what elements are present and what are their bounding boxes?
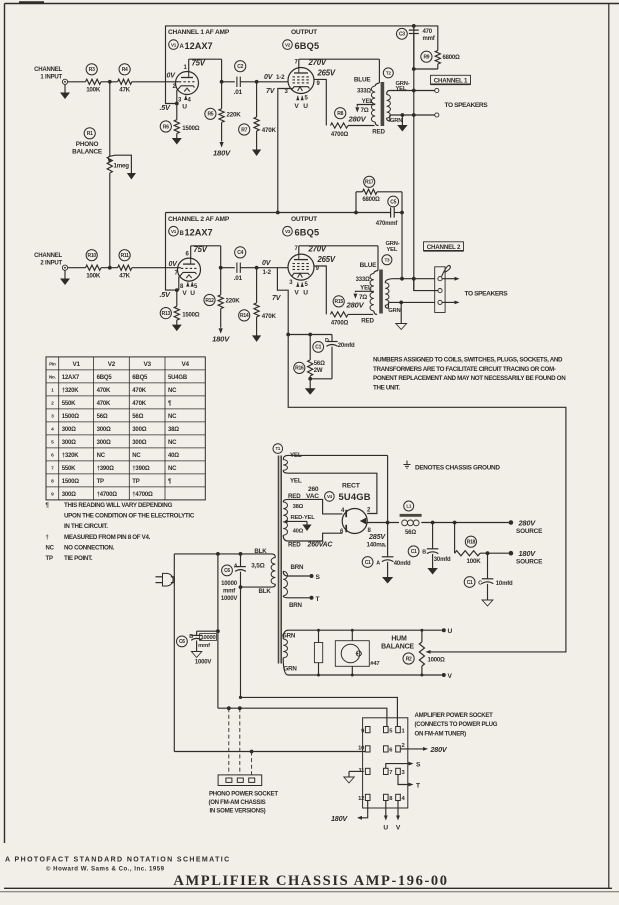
wire R5 to 180V bbox=[221, 122, 223, 141]
node junction AC/C6A top bbox=[239, 552, 243, 556]
wire V1a cathode lead down bbox=[177, 88, 179, 103]
svg-text:1-2: 1-2 bbox=[263, 269, 272, 276]
svg-text:40Ω: 40Ω bbox=[293, 528, 304, 534]
svg-text:†390Ω: †390Ω bbox=[132, 466, 150, 472]
resistor R17 6800 ohm feedback bbox=[364, 176, 375, 187]
terminal 180V SOURCE bbox=[509, 551, 514, 556]
transformer T1 power bbox=[273, 444, 283, 454]
wire pin 12 to 180V bbox=[361, 801, 368, 818]
svg-text:†: † bbox=[46, 535, 49, 541]
resistor R1 PHONO BALANCE 1meg potentiometer bbox=[84, 128, 95, 139]
svg-text:(CONNECTS TO POWER PLUG: (CONNECTS TO POWER PLUG bbox=[415, 721, 498, 728]
svg-text:56Ω: 56Ω bbox=[97, 414, 108, 420]
pin 7 bbox=[384, 768, 389, 774]
wire YEL bottom lead to V4 pin 2 bbox=[283, 470, 288, 473]
svg-text:6BQ5: 6BQ5 bbox=[295, 227, 320, 237]
ground below R13 bbox=[176, 320, 178, 326]
resistor R12 220K plate load bbox=[204, 294, 215, 305]
svg-text:V1: V1 bbox=[171, 42, 177, 47]
svg-text:56Ω: 56Ω bbox=[405, 530, 416, 536]
svg-text:R2: R2 bbox=[406, 656, 412, 662]
node junction C3/R9 bottom bbox=[412, 67, 416, 71]
node junction secondary bottom / ground bbox=[401, 113, 405, 117]
junction node at R3/R4 bbox=[108, 80, 112, 84]
svg-text:4700Ω: 4700Ω bbox=[331, 321, 349, 327]
svg-text:HUM: HUM bbox=[391, 635, 407, 642]
tube V1 label B12AX7 bbox=[169, 226, 179, 236]
amplifier power socket body bbox=[363, 718, 408, 808]
table tube voltage chart bbox=[46, 357, 205, 500]
svg-text:470K: 470K bbox=[132, 401, 146, 407]
svg-text:NC: NC bbox=[168, 466, 177, 472]
svg-text:10mfd: 10mfd bbox=[496, 581, 513, 587]
tube V1a 12AX7 triode section bbox=[176, 72, 199, 95]
ground at channel 2 input bbox=[64, 270, 66, 279]
svg-text:C6: C6 bbox=[224, 568, 230, 574]
wire GRN top lead / U line bbox=[283, 630, 288, 639]
resistor R9 6800 ohm bbox=[421, 51, 432, 62]
svg-text:†320K: †320K bbox=[62, 453, 80, 459]
wire T3 secondary top to switch bbox=[393, 278, 435, 280]
winding T1 primary BLK 3.5 ohm bbox=[271, 558, 275, 585]
wire T3 secondary bottom to switch bbox=[388, 301, 434, 303]
wire HV top lead to V4 plate pin 4 bbox=[283, 499, 288, 502]
wire pin 7 to S bbox=[386, 764, 410, 769]
svg-text:IN THE CIRCUIT.: IN THE CIRCUIT. bbox=[64, 523, 108, 530]
svg-text:BLUE: BLUE bbox=[354, 77, 372, 84]
wire T2 secondary bottom to speaker terminal bbox=[390, 114, 435, 116]
svg-text:333Ω: 333Ω bbox=[357, 89, 371, 95]
node CHANNEL 1 speaker label bbox=[431, 75, 471, 84]
svg-text:100K: 100K bbox=[467, 558, 482, 565]
svg-text:V4: V4 bbox=[327, 494, 333, 499]
node junction V3 cathode / bias network bbox=[286, 333, 290, 337]
pilot lamp #47 bbox=[335, 641, 369, 667]
wire C2 to V2 grid bbox=[240, 81, 288, 83]
svg-text:260VAC: 260VAC bbox=[307, 542, 334, 549]
pin 6 bbox=[384, 746, 389, 752]
svg-text:C3: C3 bbox=[399, 32, 405, 38]
wire pot to channel 2 line bbox=[109, 173, 111, 268]
svg-text:470K: 470K bbox=[132, 388, 146, 394]
svg-text:3,5Ω: 3,5Ω bbox=[251, 563, 264, 570]
svg-text:470K: 470K bbox=[262, 127, 277, 134]
svg-text:No.: No. bbox=[49, 375, 56, 380]
node CHANNEL 2 speaker label bbox=[424, 242, 464, 251]
svg-text:V1: V1 bbox=[72, 361, 80, 368]
wire T2 secondary top to speaker bus bbox=[389, 90, 435, 92]
svg-text:R18: R18 bbox=[467, 540, 476, 546]
node junction V2 cathode / section wire bbox=[276, 211, 280, 215]
svg-text:© Howard W. Sams & Co., Inc. 1: © Howard W. Sams & Co., Inc. 1959 bbox=[46, 866, 165, 873]
input jack J1 channel 1 bbox=[62, 79, 67, 84]
capacitor C2 .01 coupling bbox=[235, 61, 246, 72]
wire B+ 280V line bbox=[421, 522, 509, 524]
svg-text:10000: 10000 bbox=[200, 635, 215, 641]
tube V2 label 6BQ5 bbox=[283, 40, 293, 50]
wire R8 to T2 primary bottom bbox=[348, 125, 375, 127]
svg-text:12AX7: 12AX7 bbox=[185, 41, 213, 51]
svg-text:1500Ω: 1500Ω bbox=[182, 312, 200, 318]
wire V2 screen pin 9 to R8 bbox=[314, 79, 326, 125]
wire V2 plate to T2 primary bbox=[298, 59, 300, 67]
wire pin 3 to T bbox=[398, 775, 410, 785]
svg-text:R12: R12 bbox=[205, 298, 214, 304]
svg-text:BLUE: BLUE bbox=[360, 262, 378, 269]
svg-text:BALANCE: BALANCE bbox=[381, 643, 414, 650]
svg-text:R3: R3 bbox=[89, 67, 95, 73]
wire V3 cathode down to bias network bbox=[277, 268, 288, 335]
svg-text:NC: NC bbox=[168, 440, 177, 446]
svg-text:2 INPUT: 2 INPUT bbox=[40, 261, 62, 267]
svg-text:2: 2 bbox=[402, 743, 405, 749]
svg-text:550K: 550K bbox=[62, 401, 76, 407]
ground on T3 secondary hollow bbox=[400, 302, 402, 322]
svg-text:47K: 47K bbox=[119, 87, 130, 94]
svg-text:R6: R6 bbox=[163, 124, 169, 130]
svg-text:470: 470 bbox=[423, 29, 433, 35]
input jack J2 channel 2 bbox=[62, 265, 67, 270]
svg-text:300Ω: 300Ω bbox=[97, 440, 111, 446]
svg-text:280V: 280V bbox=[346, 301, 365, 310]
svg-text:PHONO: PHONO bbox=[76, 141, 99, 148]
resistor R18 100K bbox=[465, 536, 476, 547]
svg-text:300Ω: 300Ω bbox=[62, 427, 76, 433]
winding T1 HV secondary RED bbox=[283, 502, 287, 535]
svg-text:470K: 470K bbox=[262, 313, 277, 320]
svg-text:38Ω: 38Ω bbox=[293, 504, 304, 510]
svg-text:1 INPUT: 1 INPUT bbox=[40, 75, 62, 81]
svg-text:265V: 265V bbox=[317, 255, 336, 264]
tube V1b 12AX7 triode section bbox=[178, 258, 201, 281]
pin 5 bbox=[384, 727, 389, 733]
tube V2 6BQ5 output pentode bbox=[288, 68, 314, 94]
svg-text:V3: V3 bbox=[143, 361, 151, 368]
svg-text:CHANNEL 2 AF AMP: CHANNEL 2 AF AMP bbox=[168, 216, 230, 223]
svg-text:GRN: GRN bbox=[388, 308, 400, 314]
svg-text:THIS READING WILL VARY DEPENDI: THIS READING WILL VARY DEPENDING bbox=[64, 502, 173, 509]
svg-text:V1: V1 bbox=[171, 229, 177, 234]
wire speaker return bus vertical bbox=[413, 26, 415, 291]
svg-text:GRN: GRN bbox=[284, 666, 298, 673]
svg-text:12AX7: 12AX7 bbox=[62, 375, 80, 381]
svg-text:RED: RED bbox=[288, 542, 301, 549]
ground below R6 bbox=[176, 134, 178, 140]
wire AC wire 1 down to socket pin 5 bbox=[217, 554, 219, 708]
svg-text:NUMBERS ASSIGNED TO COILS, SWI: NUMBERS ASSIGNED TO COILS, SWITCHES, PLU… bbox=[373, 357, 563, 364]
resistor R5 220K plate load bbox=[205, 108, 216, 119]
wire V2 cathode to ch2 section wire bbox=[278, 89, 292, 213]
svg-text:DENOTES CHASSIS GROUND: DENOTES CHASSIS GROUND bbox=[415, 464, 500, 471]
resistor R4 47K bbox=[119, 64, 130, 75]
svg-text:ON FM-AM TUNER): ON FM-AM TUNER) bbox=[415, 730, 467, 737]
capacitor C1D 20mfd cathode bypass bbox=[313, 342, 324, 353]
winding T1 rectifier heater YEL bbox=[283, 460, 287, 471]
terminal speaker ch1 bottom bbox=[435, 113, 439, 117]
wire AC top line to T1 primary bbox=[174, 553, 271, 555]
svg-text:1000V: 1000V bbox=[195, 660, 212, 666]
svg-text:BRN: BRN bbox=[289, 602, 303, 609]
svg-text:180V: 180V bbox=[331, 814, 348, 823]
wire dashed phono feed 2 bbox=[238, 706, 242, 710]
svg-text:R9: R9 bbox=[424, 55, 430, 61]
svg-text:AMPLIFIER CHASSIS AMP-196-00: AMPLIFIER CHASSIS AMP-196-00 bbox=[173, 873, 448, 889]
svg-text:38Ω: 38Ω bbox=[168, 427, 179, 433]
svg-text:470K: 470K bbox=[97, 401, 111, 407]
resistor R14 470K grid return bbox=[239, 310, 250, 321]
wire V3 cathode to hum balance wiper (long route) bbox=[288, 335, 566, 652]
tube V1 label A12AX7 bbox=[169, 40, 179, 50]
node junction plate/R12/C4 bbox=[219, 266, 223, 270]
svg-text:V4: V4 bbox=[181, 361, 189, 368]
pin 10 bbox=[365, 746, 370, 752]
ground below C1B bbox=[432, 567, 434, 569]
svg-text:†4700Ω: †4700Ω bbox=[132, 492, 153, 498]
pin 3 bbox=[396, 768, 401, 774]
winding T1 BRN heater bbox=[283, 571, 287, 596]
svg-text:YEL: YEL bbox=[387, 247, 398, 253]
svg-text:T3: T3 bbox=[385, 257, 391, 262]
svg-text:V3: V3 bbox=[285, 229, 291, 234]
wire C5 junction down to T3 secondary bbox=[401, 213, 403, 279]
node junction C1B bbox=[431, 521, 435, 525]
ground below R14 bbox=[256, 317, 258, 337]
capacitor C1A 40mfd bbox=[362, 557, 373, 568]
svg-text:R5: R5 bbox=[208, 112, 214, 118]
wire GRN bottom lead / V line bbox=[283, 658, 288, 675]
svg-text:1500Ω: 1500Ω bbox=[62, 479, 80, 485]
node junction R17 right bbox=[400, 211, 404, 215]
svg-text:7: 7 bbox=[389, 770, 392, 776]
wire C6A line down to socket pin 1 bbox=[240, 587, 242, 697]
node junction YEL/B+ wire bbox=[386, 521, 390, 525]
svg-text:C1: C1 bbox=[467, 580, 473, 586]
node junction secondary bottom / ground bbox=[399, 301, 403, 305]
svg-text:D: D bbox=[325, 338, 329, 344]
terminal U heater bbox=[442, 628, 446, 632]
resistor R13 1500 ohm bbox=[160, 308, 171, 319]
wire bus to switch middle terminal bbox=[414, 279, 438, 291]
svg-text:OUTPUT: OUTPUT bbox=[291, 216, 317, 223]
svg-text:1-2: 1-2 bbox=[276, 74, 285, 81]
svg-text:C2: C2 bbox=[237, 64, 243, 70]
svg-text:.5V: .5V bbox=[160, 290, 172, 299]
wire V4 pin 8 output B+ bbox=[366, 522, 399, 524]
svg-text:285V: 285V bbox=[368, 532, 386, 541]
svg-text:6BQ5: 6BQ5 bbox=[97, 375, 113, 381]
capacitor C3 470mmf bbox=[397, 28, 408, 39]
svg-text:TP: TP bbox=[132, 479, 139, 485]
wire T3 tap to 280V bbox=[355, 291, 373, 292]
capacitor C4 .01 coupling bbox=[235, 247, 246, 258]
svg-text:A PHOTOFACT STANDARD NOTATION: A PHOTOFACT STANDARD NOTATION SCHEMATIC bbox=[5, 857, 231, 864]
node junction R16 bottom bbox=[308, 377, 312, 381]
svg-text:mmf: mmf bbox=[198, 643, 210, 649]
svg-text:TIE POINT.: TIE POINT. bbox=[64, 555, 93, 562]
svg-text:56Ω: 56Ω bbox=[314, 361, 325, 367]
svg-text:U: U bbox=[303, 103, 308, 110]
svg-text:280V: 280V bbox=[348, 114, 367, 123]
wire channel 1 input line bbox=[68, 81, 86, 83]
wire pin 8 to U bbox=[385, 801, 387, 817]
svg-text:RED-YEL: RED-YEL bbox=[291, 515, 316, 521]
svg-text:1000Ω: 1000Ω bbox=[428, 658, 446, 664]
svg-text:NC: NC bbox=[168, 388, 177, 394]
svg-text:R11: R11 bbox=[121, 253, 130, 259]
pin 1 bbox=[396, 727, 401, 733]
svg-text:4700Ω: 4700Ω bbox=[331, 132, 349, 138]
svg-text:GRN: GRN bbox=[390, 118, 402, 124]
svg-text:TO SPEAKERS: TO SPEAKERS bbox=[445, 102, 489, 109]
wire V3 plate to T3 primary bbox=[298, 246, 300, 254]
svg-text:NO CONNECTION.: NO CONNECTION. bbox=[64, 544, 115, 551]
svg-text:470K: 470K bbox=[97, 388, 111, 394]
svg-text:YEL: YEL bbox=[360, 284, 372, 291]
node junction bus / speaker top ch1 bbox=[412, 89, 416, 93]
svg-text:BLK: BLK bbox=[259, 588, 272, 595]
svg-text:550K: 550K bbox=[62, 466, 76, 472]
capacitor C6B 10000mmf line filter bbox=[216, 629, 220, 633]
wire pin 4 to V bbox=[397, 801, 399, 817]
pin 11 bbox=[365, 768, 370, 774]
svg-text:T2: T2 bbox=[386, 71, 392, 76]
pin 8 bbox=[384, 794, 389, 800]
node junction bus / speaker bottom ch1 bbox=[412, 113, 416, 117]
svg-text:MEASURED FROM PIN 8 OF V4.: MEASURED FROM PIN 8 OF V4. bbox=[64, 534, 151, 541]
svg-text:PONENT REPLACEMENT AND MAY NOT: PONENT REPLACEMENT AND MAY NOT NECESSARI… bbox=[373, 375, 566, 382]
svg-text:470mmf: 470mmf bbox=[376, 221, 399, 227]
svg-text:30mfd: 30mfd bbox=[434, 557, 451, 563]
svg-text:1500Ω: 1500Ω bbox=[182, 126, 200, 132]
svg-text:7Ω: 7Ω bbox=[361, 107, 369, 114]
svg-text:BRN: BRN bbox=[291, 564, 305, 571]
wire V1a cathode to R6 bbox=[176, 104, 178, 120]
svg-text:NC: NC bbox=[168, 414, 177, 420]
svg-text:C1: C1 bbox=[315, 345, 321, 351]
node V1b cathode junction bbox=[175, 288, 179, 292]
resistor R6 1500 ohm bbox=[160, 121, 171, 132]
resistor R15 4700 ohm screen dropper bbox=[333, 296, 344, 307]
svg-text:U: U bbox=[448, 628, 453, 635]
ground below R7 bbox=[256, 131, 258, 151]
svg-text:THE UNIT.: THE UNIT. bbox=[373, 384, 400, 391]
wire bias network top bbox=[288, 334, 332, 336]
wire dashed phono feed 1 bbox=[227, 706, 231, 710]
svg-text:YEL: YEL bbox=[396, 86, 407, 92]
svg-text:UPON THE CONDITION OF THE ELEC: UPON THE CONDITION OF THE ELECTROLYTIC bbox=[64, 513, 195, 520]
svg-text:C1: C1 bbox=[365, 560, 371, 566]
svg-text:280V: 280V bbox=[430, 745, 448, 754]
svg-text:R16: R16 bbox=[295, 366, 304, 372]
svg-text:BALANCE: BALANCE bbox=[72, 149, 103, 156]
wire BRN bottom lead to T bbox=[283, 596, 288, 598]
wire channel 2 feedback loop / section box outline bbox=[166, 213, 177, 291]
svg-text:NC: NC bbox=[132, 453, 141, 459]
svg-text:2W: 2W bbox=[314, 368, 323, 374]
svg-text:.5V: .5V bbox=[160, 103, 172, 112]
svg-text:Pin: Pin bbox=[49, 362, 56, 367]
wire feedback line ch2 section top bbox=[166, 212, 391, 214]
svg-text:5U4GB: 5U4GB bbox=[339, 491, 371, 502]
resistor R10 100K bbox=[86, 250, 97, 261]
AC line plug bbox=[156, 576, 163, 578]
wire channel 1 feedback loop / section box outline bbox=[166, 26, 414, 104]
svg-text:10: 10 bbox=[358, 746, 364, 752]
svg-text:.01: .01 bbox=[234, 89, 243, 96]
svg-text:R7: R7 bbox=[241, 127, 247, 133]
svg-text:333Ω: 333Ω bbox=[356, 277, 370, 283]
svg-text:V2: V2 bbox=[285, 42, 291, 47]
capacitor C6A 10000mmf line filter bbox=[222, 565, 233, 576]
node junction R14/grid wire bbox=[255, 266, 259, 270]
svg-text:R8: R8 bbox=[337, 111, 343, 117]
svg-text:75V: 75V bbox=[192, 59, 206, 68]
pin 9 bbox=[365, 727, 370, 733]
ground at channel 1 input bbox=[64, 84, 66, 93]
choke L1 56 ohm bbox=[404, 501, 414, 511]
svg-text:6800Ω: 6800Ω bbox=[443, 55, 461, 61]
resistor R16 56 ohm 2W bbox=[294, 362, 305, 373]
svg-text:T: T bbox=[316, 596, 320, 603]
svg-text:1meg: 1meg bbox=[114, 163, 130, 170]
svg-text:U: U bbox=[383, 825, 388, 832]
svg-text:140ma.: 140ma. bbox=[367, 542, 387, 549]
svg-text:300Ω: 300Ω bbox=[132, 427, 146, 433]
svg-text:6BQ5: 6BQ5 bbox=[132, 375, 148, 381]
wire pin 11 to ground bbox=[349, 770, 363, 772]
svg-text:300Ω: 300Ω bbox=[62, 492, 76, 498]
svg-text:RED: RED bbox=[361, 317, 374, 324]
svg-text:180V: 180V bbox=[213, 149, 231, 158]
wire C4 to V3 grid bbox=[240, 267, 288, 269]
node junction R17 left bbox=[354, 211, 358, 215]
svg-text:TP: TP bbox=[97, 479, 104, 485]
svg-text:(ON FM-AM CHASSIS: (ON FM-AM CHASSIS bbox=[209, 799, 266, 806]
svg-text:†320K: †320K bbox=[62, 388, 80, 394]
svg-text:R10: R10 bbox=[88, 253, 97, 259]
svg-text:TO SPEAKERS: TO SPEAKERS bbox=[465, 291, 509, 298]
svg-text:12AX7: 12AX7 bbox=[185, 227, 213, 237]
node junction C1C bbox=[486, 551, 490, 555]
wire R12 to 180V bbox=[220, 309, 222, 328]
svg-text:1000V: 1000V bbox=[221, 596, 238, 602]
wire AC line to amplifier socket pin 5 bbox=[218, 708, 387, 726]
svg-text:A: A bbox=[376, 560, 380, 566]
wire V1b plate to coupling network bbox=[190, 246, 192, 258]
svg-text:mmf: mmf bbox=[223, 588, 236, 594]
svg-text:40mfd: 40mfd bbox=[394, 561, 411, 567]
svg-text:1500Ω: 1500Ω bbox=[62, 414, 80, 420]
svg-text:CHANNEL 1: CHANNEL 1 bbox=[434, 77, 468, 84]
svg-text:C6: C6 bbox=[179, 639, 185, 645]
resistor R2 1000 ohm hum balance pot bbox=[403, 653, 414, 664]
svg-text:C5: C5 bbox=[390, 199, 396, 205]
wire AC plug line to socket pin 10 bbox=[173, 751, 175, 753]
transformer T2 output ch1 bbox=[383, 68, 393, 78]
wire dashed phono feed 3 bbox=[250, 750, 254, 754]
ground below C1A bbox=[387, 571, 389, 578]
node junction at R10/R11 bbox=[108, 266, 112, 270]
svg-text:U: U bbox=[303, 290, 308, 297]
resistor R11 47K bbox=[119, 250, 130, 261]
phono power socket body bbox=[218, 775, 262, 786]
node junction R16 top bbox=[308, 333, 312, 337]
svg-text:C4: C4 bbox=[237, 250, 243, 256]
node junction R7/grid wire bbox=[255, 80, 259, 84]
svg-text:AMPLIFIER POWER SOCKET: AMPLIFIER POWER SOCKET bbox=[415, 712, 494, 719]
svg-text:265V: 265V bbox=[317, 69, 336, 78]
svg-text:300Ω: 300Ω bbox=[97, 427, 111, 433]
